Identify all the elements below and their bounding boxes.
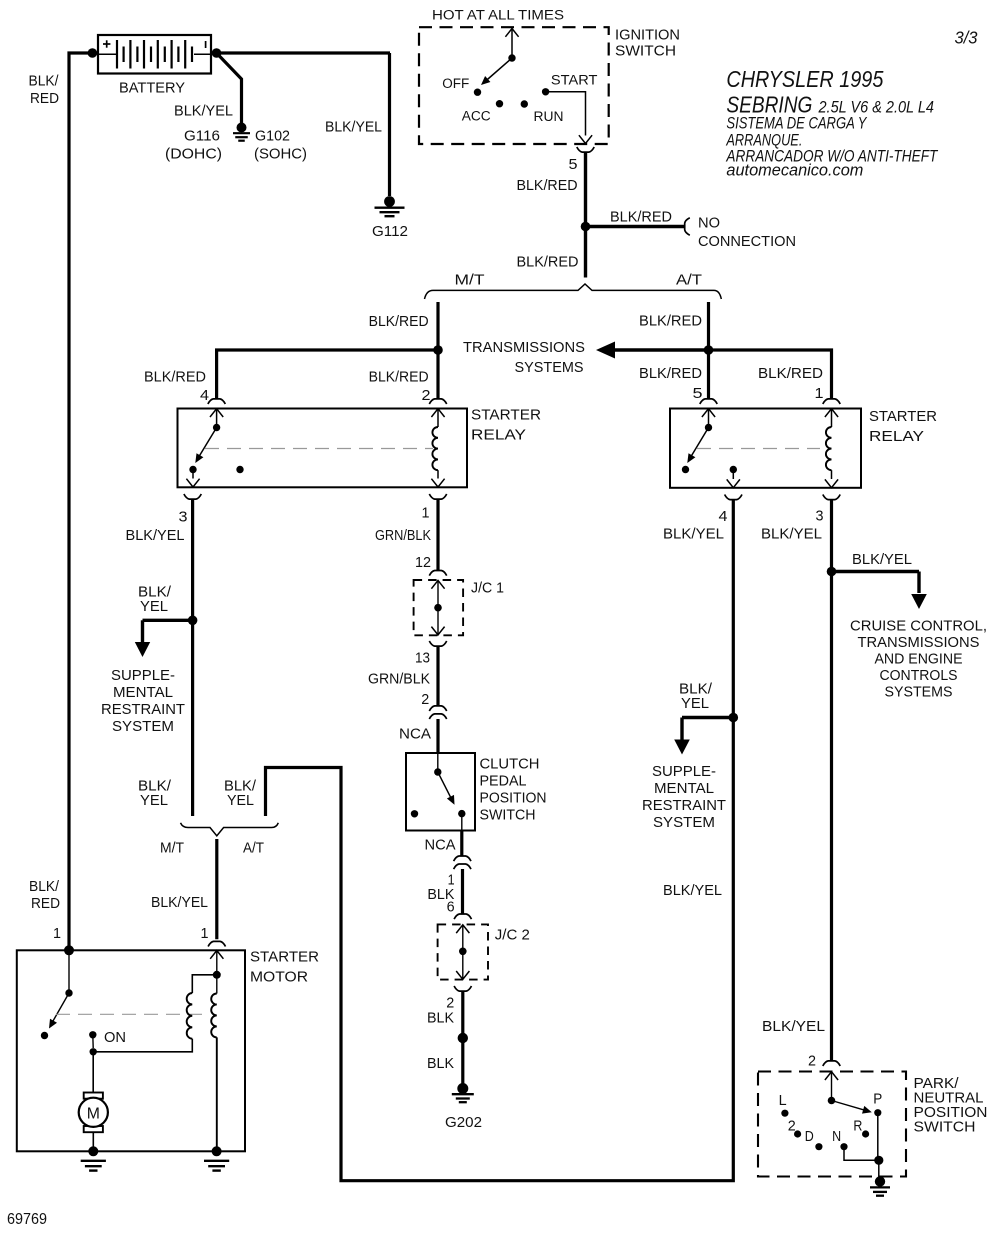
wire - feed to pull-in coil: [93, 1039, 192, 1052]
node - battery positive terminal junction: [88, 48, 98, 58]
wire - junction down to relay pin 5: [707, 350, 710, 399]
label BLK/ RED bottom-left: [29, 878, 60, 912]
svg-text:SWITCH: SWITCH: [914, 1119, 976, 1136]
svg-text:R: R: [853, 1118, 862, 1135]
svg-text:STARTER: STARTER: [250, 949, 319, 966]
label D: [805, 1128, 814, 1145]
svg-text:N: N: [832, 1128, 841, 1145]
wire BLK/RED - M/T branch down to junction: [436, 302, 439, 350]
label J/C 1: [471, 580, 504, 597]
svg-text:NO: NO: [698, 215, 720, 232]
relay K2 - internal dashed datum line: [697, 448, 820, 450]
svg-text:A/T: A/T: [243, 840, 264, 857]
svg-text:RESTRAINT: RESTRAINT: [642, 797, 726, 814]
label NCA below: [425, 837, 457, 854]
junction connector J/C 2 - dashed box: [438, 924, 488, 979]
svg-text:MENTAL: MENTAL: [654, 780, 714, 797]
connector - ignition pin 5: [577, 147, 594, 152]
svg-text:1: 1: [53, 925, 61, 942]
svg-text:BLK/YEL: BLK/YEL: [761, 525, 822, 542]
label BLK/RED to pin 2: [369, 369, 429, 386]
svg-text:SYSTEMS: SYSTEMS: [885, 684, 953, 701]
svg-text:5: 5: [569, 156, 578, 173]
label STARTER MOTOR: [250, 949, 319, 986]
label 12 pin: [415, 554, 431, 571]
connector - K2 pin 4: [725, 495, 742, 500]
connector - J/C 2 input: [454, 914, 471, 919]
label BLK/YEL pin 3: [126, 527, 185, 544]
label automecanico.com: [726, 162, 863, 180]
svg-text:1: 1: [201, 925, 209, 942]
label CLUTCH PEDAL POSITION SWITCH: [480, 756, 547, 824]
connector - K1 pin 4: [208, 399, 225, 404]
label GRN/BLK mid: [368, 670, 430, 687]
contact R: [862, 1130, 869, 1137]
svg-text:SWITCH: SWITCH: [615, 43, 676, 60]
label BLK/ YEL right SRS: [679, 681, 713, 713]
svg-text:BLK/RED: BLK/RED: [517, 177, 578, 194]
ground G202: [452, 1083, 474, 1102]
label 3 pin: [179, 509, 188, 526]
label G116 (DOHC): [165, 128, 222, 163]
svg-text:L: L: [779, 1092, 787, 1109]
contact RUN: [521, 100, 528, 107]
svg-text:2: 2: [422, 387, 431, 404]
label BLK/ YEL left SRS: [138, 584, 172, 616]
wire NCA - clutch switch output: [460, 831, 463, 856]
svg-text:4: 4: [200, 387, 209, 404]
contact unlabeled below D: [815, 1143, 822, 1150]
svg-text:STARTER: STARTER: [869, 408, 937, 425]
ground - starter motor left: [81, 1146, 106, 1170]
label PARK/ NEUTRAL POSITION SWITCH: [914, 1075, 988, 1136]
wire - battery negative to ground G116/G102: [217, 53, 242, 123]
svg-text:START: START: [551, 73, 598, 89]
node - SRS branch junction right: [729, 713, 739, 723]
label BLK/RED M/T branch: [369, 313, 429, 330]
label 5 pin: [569, 156, 578, 173]
clutch switch - arm and contacts: [411, 753, 466, 831]
connector - K2 pin 5: [700, 399, 717, 404]
label 4 pin bottom: [719, 508, 728, 525]
svg-text:STARTER: STARTER: [471, 407, 541, 424]
label BLK/YEL above park/neutral: [762, 1018, 825, 1035]
brace - M/T A/T merge at starter motor: [181, 823, 279, 836]
label ACC: [462, 109, 491, 125]
svg-text:RESTRAINT: RESTRAINT: [101, 701, 185, 718]
svg-text:BLK: BLK: [427, 1009, 454, 1026]
relay K1 - pin 4 arrow and switch arm: [189, 409, 223, 473]
wire - junction down to motor: [92, 1052, 94, 1093]
battery B1: [98, 35, 211, 74]
wire BLK/RED - ignition pin 5 down to junction: [584, 152, 587, 277]
label 3/3 page number: [955, 28, 978, 48]
label 2 pin: [422, 387, 431, 404]
svg-text:BLK/YEL: BLK/YEL: [151, 894, 208, 911]
starter motor - internal dashed datum line: [56, 1013, 210, 1015]
svg-text:BLK/RED: BLK/RED: [639, 365, 702, 382]
label IGNITION SWITCH: [615, 27, 680, 60]
label OFF: [442, 76, 469, 92]
svg-text:BLK/RED: BLK/RED: [144, 369, 206, 386]
svg-text:A/T: A/T: [676, 272, 702, 289]
label BLK/ YEL A/T side: [224, 778, 257, 810]
connector - K2 pin 1: [823, 399, 840, 404]
node - park/neutral ground junction: [874, 1156, 883, 1165]
wire GRN/BLK - J/C 1 to inline connector: [436, 646, 439, 705]
svg-text:RELAY: RELAY: [471, 427, 526, 444]
node - cruise branch junction: [827, 567, 837, 577]
label BLK/RED above junction: [517, 177, 578, 194]
svg-text:RUN: RUN: [534, 109, 564, 125]
relay K1 - internal dashed datum line: [205, 448, 433, 450]
label BLK/RED top-left: [29, 73, 60, 108]
svg-text:12: 12: [415, 554, 431, 571]
arrow - to supplemental restraint system right: [674, 718, 733, 755]
label SUPPLEMENTAL RESTRAINT SYSTEM left: [101, 667, 185, 735]
svg-text:YEL: YEL: [227, 792, 254, 809]
connector - K2 pin 3: [823, 495, 840, 500]
svg-text:3/3: 3/3: [955, 28, 978, 48]
relay K2 - pin 5 arrow and switch arm: [682, 409, 715, 473]
ignition switch S1 - dashed box: [419, 27, 609, 144]
connector - K1 pin 1: [429, 494, 446, 499]
connector - inline pair above clutch switch: [429, 706, 446, 719]
svg-text:OFF: OFF: [442, 76, 469, 92]
wire BLK/YEL - K1 pin 3 down: [191, 499, 194, 816]
svg-text:automecanico.com: automecanico.com: [726, 162, 863, 180]
svg-text:M/T: M/T: [160, 840, 184, 857]
label BLK middle: [427, 1009, 454, 1026]
ignition switch - rotor arm toward OFF: [481, 58, 512, 85]
svg-text:GRN/BLK: GRN/BLK: [368, 670, 430, 687]
label 1 pin below clutch: [448, 872, 455, 889]
svg-text:J/C 2: J/C 2: [495, 926, 530, 943]
relay K1 - switch common to pin 3 exit: [186, 466, 243, 487]
svg-text:5: 5: [693, 385, 703, 402]
svg-text:2: 2: [421, 691, 429, 708]
svg-text:BLK/RED: BLK/RED: [369, 369, 429, 386]
label BLK/RED below junction: [517, 254, 579, 271]
label 1 pin: [422, 505, 430, 522]
relay K2 - contact to pin 4 exit: [727, 466, 740, 488]
svg-text:BLK/YEL: BLK/YEL: [663, 882, 722, 899]
starter motor M1 - box: [17, 950, 245, 1151]
svg-text:BLK/RED: BLK/RED: [517, 254, 579, 271]
node - motor feed junction: [90, 1035, 97, 1056]
connector - K1 pin 3: [184, 494, 201, 499]
ground - starter motor right: [204, 1146, 229, 1170]
starter relay K1 - box: [178, 409, 468, 488]
svg-text:BLK/RED: BLK/RED: [758, 365, 823, 382]
ignition switch - feed arrow to HOT AT ALL TIMES: [505, 29, 518, 62]
svg-text:MENTAL: MENTAL: [113, 684, 173, 701]
label BATTERY: [119, 80, 185, 97]
connector - park/neutral pin 2: [823, 1061, 840, 1066]
label START: [551, 73, 598, 89]
svg-text:TRANSMISSIONS: TRANSMISSIONS: [463, 339, 585, 356]
svg-text:SUPPLE-: SUPPLE-: [111, 667, 175, 684]
contact N: [840, 1143, 847, 1150]
svg-text:YEL: YEL: [140, 598, 168, 615]
svg-text:RED: RED: [31, 895, 60, 912]
svg-text:3: 3: [179, 509, 188, 526]
svg-text:M: M: [87, 1106, 100, 1123]
label P: [873, 1090, 882, 1107]
label STARTER RELAY left: [471, 407, 541, 444]
label HOT AT ALL TIMES: [432, 8, 564, 24]
label ARRANCADOR W/O ANTI-THEFT: [726, 147, 939, 165]
label G112: [372, 223, 408, 240]
wire BLK/YEL - A/T return from K2 pin 4 route: [266, 500, 734, 1181]
park/neutral switch - entry arrow and rotor: [825, 1072, 872, 1114]
svg-text:1: 1: [422, 505, 430, 522]
label 13 pin: [415, 650, 430, 667]
relay K2 - coil: [825, 409, 838, 488]
starter motor - pull-in coil: [187, 975, 217, 1039]
label BLK lower: [427, 1055, 454, 1072]
wire BLK/YEL - brace to starter motor pin 1: [215, 839, 218, 939]
node - SRS branch junction left: [188, 616, 198, 626]
wire - junction down to relay pin 2: [436, 350, 439, 399]
label RUN: [534, 109, 564, 125]
contact D: [794, 1130, 801, 1137]
svg-text:BLK/RED: BLK/RED: [369, 313, 429, 330]
node - battery negative terminal junction: [212, 48, 222, 58]
label CHRYSLER 1995: [726, 66, 883, 92]
svg-text:PEDAL: PEDAL: [480, 773, 527, 790]
svg-text:G116: G116: [184, 128, 220, 145]
label 69769 drawing number: [7, 1211, 47, 1228]
svg-text:CONNECTION: CONNECTION: [698, 233, 796, 250]
label 2 pin park/neutral: [808, 1053, 816, 1070]
junction connector J/C 2 - internal arrows and splice dot: [456, 925, 469, 980]
arrow - to supplemental restraint system left: [135, 620, 193, 657]
wire - junction right and down to relay pin 1: [709, 350, 832, 399]
label 1 starter pin BLK/YEL: [201, 925, 209, 942]
motor M - armature: [79, 1093, 108, 1133]
label BLK/YEL G112 wire: [325, 119, 382, 136]
label 6 pin: [447, 899, 455, 916]
svg-text:M/T: M/T: [455, 272, 485, 289]
svg-text:G202: G202: [445, 1114, 482, 1131]
svg-text:BLK/YEL: BLK/YEL: [126, 527, 185, 544]
label BLK/YEL cruise branch: [852, 551, 912, 568]
label 4 pin: [200, 387, 209, 404]
svg-text:BLK/RED: BLK/RED: [610, 209, 672, 226]
label G102 (SOHC): [254, 128, 307, 163]
svg-text:AND ENGINE: AND ENGINE: [875, 651, 963, 668]
svg-text:BLK/YEL: BLK/YEL: [852, 551, 912, 568]
svg-text:D: D: [805, 1128, 814, 1145]
starter motor - hold-in coil and pin arrow: [210, 951, 223, 1152]
svg-text:G102: G102: [255, 128, 290, 145]
wire GRN/BLK - K1 pin 1 down to J/C 1: [436, 499, 439, 570]
svg-text:(SOHC): (SOHC): [254, 146, 307, 163]
contact OFF: [474, 89, 481, 96]
label 1 pin right relay: [815, 385, 824, 402]
svg-text:SYSTEM: SYSTEM: [112, 718, 174, 735]
label CRUISE CONTROL TRANSMISSIONS AND ENGINE CONTROLS SYSTEMS: [850, 618, 987, 701]
arrow - to transmissions systems: [596, 342, 709, 359]
svg-text:3: 3: [816, 507, 824, 524]
svg-text:BLK/RED: BLK/RED: [639, 313, 702, 330]
label BLK/RED A/T branch: [639, 313, 702, 330]
label GRN/BLK pin 1: [375, 527, 431, 544]
label BLK/YEL right run: [663, 882, 722, 899]
wire BLK - inline connector to J/C 2: [461, 869, 464, 914]
junction connector J/C 1 - internal arrows and splice dot: [431, 580, 444, 635]
svg-text:BLK/YEL: BLK/YEL: [325, 119, 382, 136]
connector - J/C 1 output: [429, 641, 446, 646]
label J/C 2: [495, 926, 530, 943]
wire - battery negative to ground G112: [388, 53, 391, 196]
label SISTEMA DE CARGA Y: [726, 114, 867, 132]
label SEBRING 2.5L V6 & 2.0L L4: [726, 92, 934, 118]
node - BLK/RED entry junction on box edge: [64, 945, 74, 955]
svg-text:NCA: NCA: [425, 837, 457, 854]
svg-text:69769: 69769: [7, 1211, 47, 1228]
label L: [779, 1092, 787, 1109]
svg-text:2: 2: [808, 1053, 816, 1070]
svg-text:YEL: YEL: [140, 792, 168, 809]
label STARTER RELAY right: [869, 408, 937, 445]
label BLK/YEL battery ground: [174, 103, 233, 120]
wire - battery positive feed, left vertical BLK/RED run: [69, 53, 390, 950]
svg-text:G112: G112: [372, 223, 408, 240]
svg-text:GRN/BLK: GRN/BLK: [375, 527, 431, 544]
svg-text:CRUISE CONTROL,: CRUISE CONTROL,: [850, 618, 987, 635]
svg-text:13: 13: [415, 650, 430, 667]
label A/T bottom: [243, 840, 264, 857]
wire - P and N contacts to ground junction: [844, 1113, 879, 1161]
label 5 pin right relay: [693, 385, 703, 402]
label N: [832, 1128, 841, 1145]
starter motor - solenoid switch arm: [41, 950, 73, 1039]
wire BLK/YEL - K2 pin 3 down to park/neutral switch: [830, 500, 833, 1062]
label BLK/YEL pin 4: [663, 525, 724, 542]
svg-text:BLK/YEL: BLK/YEL: [174, 103, 233, 120]
svg-text:YEL: YEL: [681, 695, 709, 712]
connector - no connection end: [685, 218, 690, 235]
label SUPPLEMENTAL RESTRAINT SYSTEM right: [642, 763, 726, 831]
node - M/T branch junction: [433, 345, 443, 355]
node - A/T branch junction: [704, 345, 714, 355]
label BLK/YEL to starter: [151, 894, 208, 911]
svg-text:RELAY: RELAY: [869, 428, 924, 445]
svg-text:BLK/: BLK/: [29, 878, 60, 895]
svg-text:CONTROLS: CONTROLS: [880, 667, 958, 684]
svg-text:SYSTEM: SYSTEM: [653, 814, 715, 831]
label NCA above: [399, 726, 432, 743]
wire NCA - inline connector to clutch switch: [436, 719, 439, 753]
svg-text:BLK: BLK: [427, 1055, 454, 1072]
svg-text:SISTEMA DE CARGA Y: SISTEMA DE CARGA Y: [726, 114, 867, 132]
ground - park/neutral switch: [870, 1176, 890, 1195]
connector - K1 pin 2: [429, 399, 446, 404]
svg-text:SYSTEMS: SYSTEMS: [515, 359, 584, 376]
ground G116/G102: [233, 123, 250, 141]
label M/T bottom: [160, 840, 184, 857]
label BLK/YEL pin 3: [761, 525, 822, 542]
label BLK upper: [427, 886, 454, 903]
svg-text:ON: ON: [104, 1029, 126, 1046]
svg-text:6: 6: [447, 899, 455, 916]
svg-text:POSITION: POSITION: [480, 790, 547, 807]
label TRANSMISSIONS SYSTEMS: [463, 339, 585, 376]
label 1 starter pin BLK/RED: [53, 925, 61, 942]
label 2 position: [788, 1118, 796, 1135]
wire - START contact to pin 5 exit: [546, 92, 593, 144]
svg-text:P: P: [873, 1090, 882, 1107]
label 3 pin bottom: [816, 507, 824, 524]
svg-text:BLK/YEL: BLK/YEL: [663, 525, 724, 542]
svg-text:2: 2: [788, 1118, 796, 1135]
label ARRANQUE.: [726, 132, 803, 150]
junction connector J/C 1 - dashed box: [414, 580, 464, 635]
svg-text:IGNITION: IGNITION: [615, 27, 680, 44]
contact L: [781, 1110, 788, 1117]
label BLK/RED on stub: [610, 209, 672, 226]
svg-text:MOTOR: MOTOR: [250, 969, 308, 986]
svg-text:(DOHC): (DOHC): [165, 146, 222, 163]
contact ACC: [496, 100, 503, 107]
wire - stub to no connection: [586, 225, 685, 228]
label BLK/ YEL above M/T brace: [138, 778, 172, 810]
svg-text:1: 1: [815, 385, 824, 402]
relay K1 - coil: [431, 409, 444, 487]
label G202: [445, 1114, 482, 1131]
wire - motor to ground: [92, 1132, 94, 1151]
wire - junction left and down to relay pin 4: [217, 350, 438, 399]
clutch pedal position switch S2 - box: [406, 753, 475, 831]
connector - J/C 1 input: [429, 571, 446, 576]
park/neutral position switch S3 - dashed box: [758, 1072, 906, 1177]
contact START: [542, 88, 549, 95]
connector - J/C 2 output: [454, 986, 471, 991]
label 2 pin below J/C 2: [446, 995, 454, 1012]
svg-text:ACC: ACC: [462, 109, 491, 125]
label R: [853, 1118, 862, 1135]
svg-text:4: 4: [719, 508, 728, 525]
svg-text:BLK/YEL: BLK/YEL: [762, 1018, 825, 1035]
svg-text:J/C 1: J/C 1: [471, 580, 504, 597]
wire BLK - J/C 2 to ground G202: [461, 991, 464, 1084]
arrow - to cruise control systems: [832, 572, 927, 610]
brace - M/T A/T split: [425, 284, 722, 299]
svg-text:SUPPLE-: SUPPLE-: [652, 763, 716, 780]
svg-text:CLUTCH: CLUTCH: [480, 756, 540, 773]
node - BLK/RED junction at no-connection stub: [581, 222, 591, 232]
ground G112: [375, 196, 405, 216]
label NO CONNECTION: [698, 215, 796, 251]
label BLK/RED to pin 4: [144, 369, 206, 386]
node - splice on BLK wire: [458, 1033, 468, 1043]
svg-text:NCA: NCA: [399, 726, 432, 743]
contact ON: [89, 1031, 96, 1038]
starter relay K2 - box: [670, 409, 861, 488]
label ON: [104, 1029, 126, 1046]
label 2 pin inline: [421, 691, 429, 708]
label M/T top: [455, 272, 485, 289]
wire - junction to case ground: [878, 1160, 880, 1177]
label BLK/RED to pin 1: [758, 365, 823, 382]
svg-text:BATTERY: BATTERY: [119, 80, 185, 97]
connector - starter pin 1 BLK/YEL: [208, 941, 225, 946]
connector - inline pair below clutch switch: [454, 856, 471, 869]
label BLK/RED to pin 5: [639, 365, 702, 382]
svg-text:RED: RED: [30, 90, 59, 107]
